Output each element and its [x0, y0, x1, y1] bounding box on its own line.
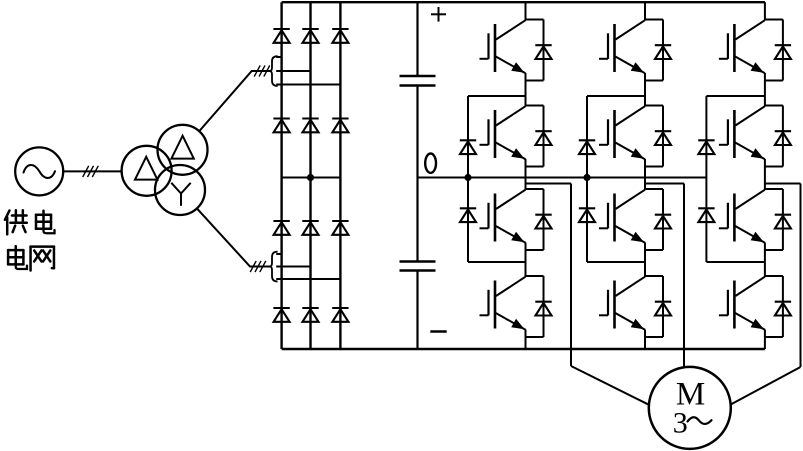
IGBT V7	[599, 190, 645, 243]
wire clamp branch leg a lower tie	[468, 261, 526, 263]
junction dot neutral leg 2	[583, 174, 590, 181]
transformer primary winding (delta)	[122, 146, 172, 196]
freewheel diode VD4	[526, 276, 544, 337]
IGBT V8	[599, 277, 645, 330]
junction dot rectifier midpoint	[307, 174, 314, 181]
diode D11	[302, 308, 318, 322]
freewheel diode VD5	[645, 20, 663, 81]
three-phase tick marks on lower bridge feed	[250, 261, 266, 272]
label 0 (neutral point)	[425, 154, 436, 173]
IGBT V6	[599, 106, 645, 159]
IGBT V5	[599, 20, 645, 73]
wire phase arm to rectifier leg 3 (lower)	[276, 278, 340, 280]
wire DC negative rail	[282, 348, 765, 350]
wire rectifier leg 3	[339, 2, 341, 349]
diode D8	[302, 221, 318, 235]
diode D10	[273, 308, 289, 322]
wire clamp branch leg b vertical	[586, 96, 588, 262]
junction dot neutral leg 1	[464, 174, 471, 181]
wire inverter leg c spine	[764, 2, 766, 349]
clamp diode DC1	[460, 140, 476, 154]
diode D9	[332, 221, 348, 235]
wire inverter leg b spine	[644, 2, 646, 349]
IGBT V11	[719, 190, 765, 243]
wire phase arm to rectifier leg 1 (lower)	[276, 253, 281, 255]
wire clamp branch leg a vertical	[467, 96, 469, 262]
wire phase arm to rectifier leg 2 (upper)	[276, 70, 310, 72]
wire neutral bus 0	[418, 177, 707, 179]
clamp diode DC2	[460, 208, 476, 222]
IGBT V3	[480, 190, 526, 243]
wire rectifier midpoint tie	[282, 177, 341, 179]
wire clamp branch leg b lower tie	[587, 261, 645, 263]
three-phase tick marks on supply wire	[83, 166, 99, 177]
brace for upper bridge three-phase input	[269, 56, 277, 86]
wire clamp branch leg c lower tie	[706, 261, 765, 263]
IGBT V4	[480, 277, 526, 330]
wire phase c output	[731, 184, 801, 405]
diode D2	[302, 29, 318, 43]
clamp diode DC6	[698, 208, 714, 222]
IGBT V9	[719, 20, 765, 73]
label + (positive rail)	[431, 7, 446, 22]
freewheel diode VD8	[645, 276, 663, 337]
transformer secondary winding 2 (wye)	[155, 165, 205, 215]
freewheel diode VD9	[765, 20, 783, 81]
diode D1	[273, 29, 289, 43]
clamp diode DC4	[579, 208, 595, 222]
wire transformer to upper rectifier bridge	[199, 71, 270, 131]
diode D12	[332, 308, 348, 322]
wire transformer to lower rectifier bridge	[197, 208, 271, 266]
freewheel diode VD11	[765, 189, 783, 250]
wire clamp branch leg a upper tie	[468, 95, 526, 97]
clamp diode DC5	[698, 140, 714, 154]
IGBT V12	[719, 277, 765, 330]
diode D4	[273, 119, 289, 133]
wire phase a output	[526, 184, 650, 405]
svg-text:3: 3	[673, 407, 688, 440]
IGBT V10	[719, 106, 765, 159]
wire DC positive rail	[282, 1, 765, 3]
wire rectifier leg 1	[280, 2, 282, 349]
wire phase b output	[645, 184, 684, 368]
freewheel diode VD6	[645, 106, 663, 167]
label - (negative rail)	[430, 330, 446, 333]
freewheel diode VD10	[765, 106, 783, 167]
wire clamp branch leg c upper tie	[706, 95, 765, 97]
freewheel diode VD2	[526, 106, 544, 167]
wire phase arm to rectifier leg 3 (upper)	[276, 84, 340, 86]
freewheel diode VD1	[526, 20, 544, 81]
freewheel diode VD12	[765, 276, 783, 337]
wire phase arm to rectifier leg 1 (upper)	[276, 56, 281, 58]
wire AC source to transformer	[63, 170, 121, 172]
label 供电电网 (supply grid) drawn as strokes	[5, 210, 55, 270]
capacitor C2	[400, 262, 436, 271]
wire clamp branch leg c vertical	[705, 96, 707, 262]
capacitor C1	[400, 76, 436, 86]
three-phase tick marks on upper bridge feed	[254, 65, 270, 76]
motor M 3-phase	[649, 367, 731, 449]
diode D3	[332, 29, 348, 43]
AC source G1 (supply grid)	[15, 147, 63, 195]
freewheel diode VD3	[526, 189, 544, 250]
wire phase arm to rectifier leg 2 (lower)	[276, 266, 310, 268]
clamp diode DC3	[579, 140, 595, 154]
brace for lower bridge three-phase input	[269, 252, 277, 282]
diode D5	[302, 119, 318, 133]
wire inverter leg a spine	[525, 2, 527, 349]
wire rectifier leg 2	[309, 2, 311, 349]
wire DC-link capacitor string	[416, 2, 418, 349]
wire clamp branch leg b upper tie	[587, 95, 645, 97]
transformer secondary winding 1 (delta)	[158, 125, 208, 175]
IGBT V1	[480, 20, 526, 73]
IGBT V2	[480, 106, 526, 159]
freewheel diode VD7	[645, 189, 663, 250]
diode D6	[332, 119, 348, 133]
diode D7	[273, 221, 289, 235]
